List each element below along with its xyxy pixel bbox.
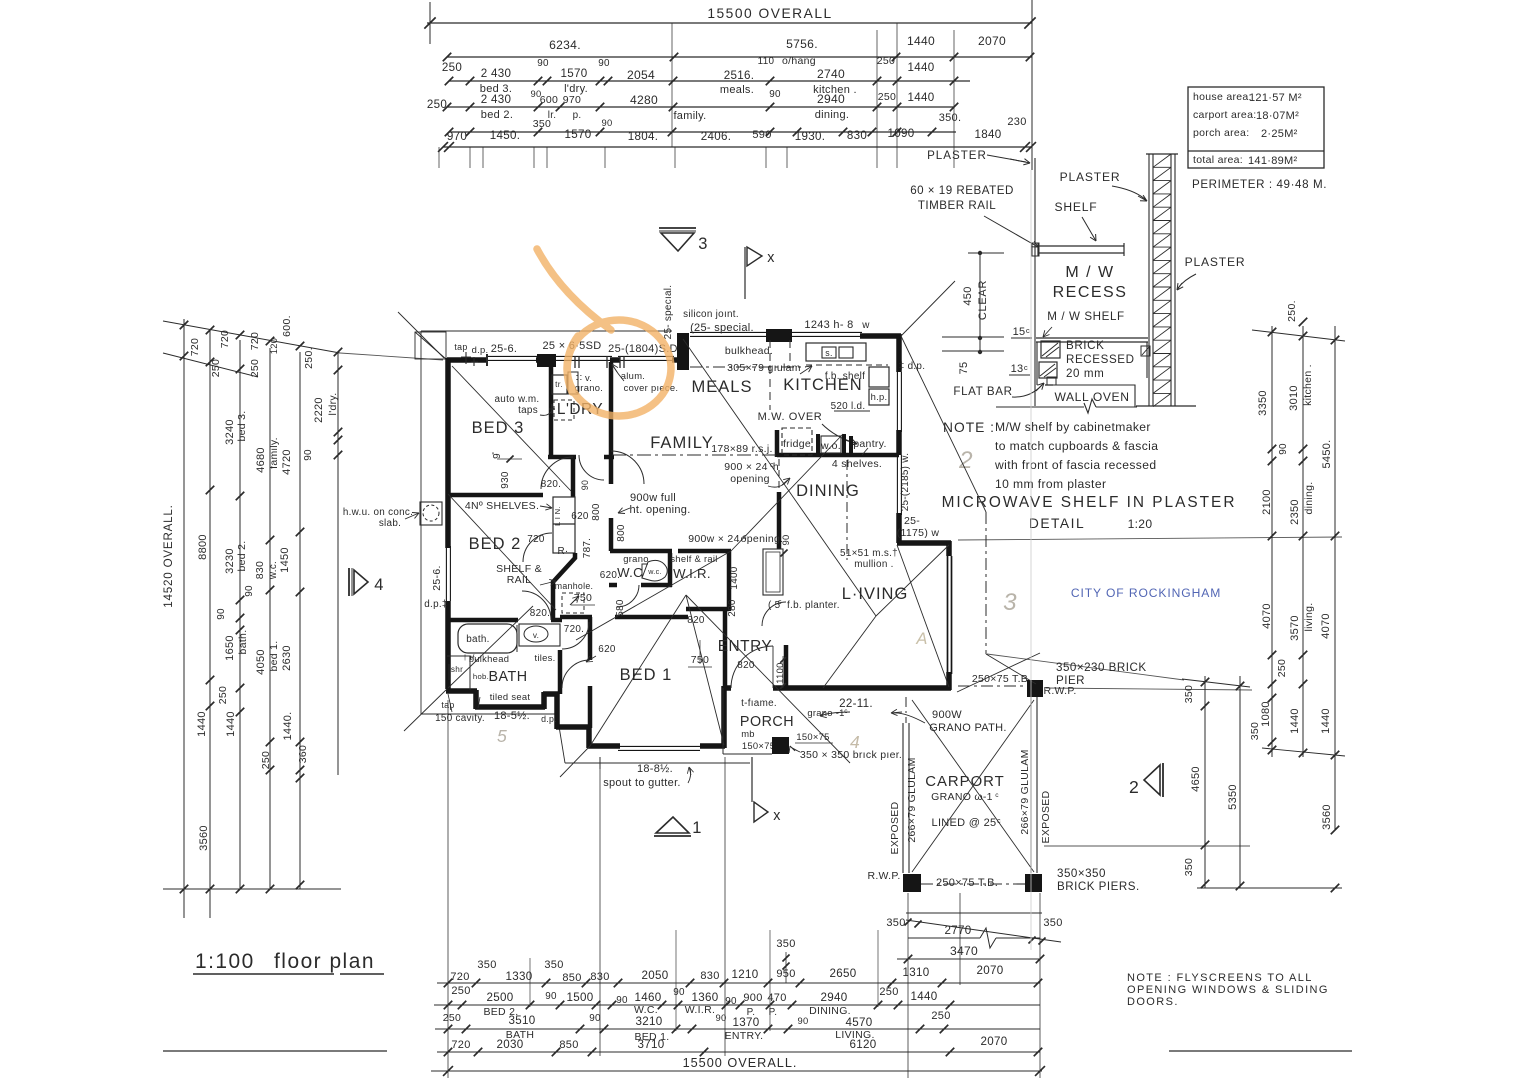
svg-text:pantry.: pantry. <box>853 438 886 450</box>
left chain verticals <box>209 330 211 889</box>
svg-text:bath.: bath. <box>237 630 249 655</box>
svg-text:2030: 2030 <box>497 1038 524 1051</box>
svg-text:NOTE : FLYSCREENS TO ALL: NOTE : FLYSCREENS TO ALL <box>1127 972 1313 984</box>
bottom row 1 line <box>437 982 1040 984</box>
vanity bed bath <box>519 624 560 646</box>
bottom row 4 line <box>437 1051 1040 1053</box>
section marker 2 (triangle left) <box>1144 765 1160 795</box>
svg-text:1440: 1440 <box>1320 708 1332 734</box>
svg-text:250: 250 <box>249 359 261 377</box>
manhole dashed box <box>562 593 584 613</box>
svg-text:f.b. planter.: f.b. planter. <box>787 600 840 611</box>
svg-text:350×230 BRICK: 350×230 BRICK <box>1056 661 1147 674</box>
svg-text:TIMBER RAIL: TIMBER RAIL <box>918 199 996 212</box>
svg-text:3240: 3240 <box>224 419 236 445</box>
roof line living corner to carport <box>957 653 1040 692</box>
svg-text:RECESS: RECESS <box>1053 284 1128 301</box>
svg-text:1450: 1450 <box>279 547 291 573</box>
svg-text:R.W.P.: R.W.P. <box>867 870 900 882</box>
svg-text:w.c.: w.c. <box>647 567 662 576</box>
dim row 2: 6234 / 5756 / 1440 / 2070 <box>447 56 1032 58</box>
north wall bed3 (with window 25-6) <box>447 357 487 363</box>
svg-text:3570: 3570 <box>1289 615 1301 641</box>
carport beam bottom dash-dot <box>921 883 1025 885</box>
svg-text:25-: 25- <box>904 515 920 527</box>
svg-text:MEALS: MEALS <box>692 378 753 396</box>
svg-text:620.: 620. <box>600 570 620 581</box>
svg-text:hob.: hob. <box>473 672 489 681</box>
dim 450 CLEAR / 75 <box>979 253 981 352</box>
svg-text:2 430: 2 430 <box>481 67 512 80</box>
svg-text:PLASTER: PLASTER <box>1185 255 1246 269</box>
svg-text:900w × 24: 900w × 24 <box>688 533 739 545</box>
svg-text:bed 3.: bed 3. <box>236 411 248 442</box>
svg-text:c: c <box>1024 363 1028 372</box>
svg-text:5: 5 <box>497 726 507 746</box>
bulkhead dash-dot line over meals <box>690 366 806 368</box>
svg-text:1450.: 1450. <box>490 129 521 142</box>
svg-text:3350: 3350 <box>1257 390 1269 416</box>
svg-text:h: h <box>773 461 779 473</box>
entry door stub <box>725 685 731 691</box>
svg-text:4680: 4680 <box>255 447 267 473</box>
flat bar bracket <box>1047 377 1056 385</box>
svg-text:250×75 T.B.: 250×75 T.B. <box>936 877 998 889</box>
svg-text:6120: 6120 <box>850 1038 877 1051</box>
svg-text:350: 350 <box>1043 917 1062 929</box>
svg-text:ht. opening.: ht. opening. <box>629 504 690 516</box>
svg-text:350: 350 <box>1183 685 1195 703</box>
svg-text:PLASTER: PLASTER <box>927 149 987 162</box>
svg-text:ENTRY.: ENTRY. <box>725 1030 764 1042</box>
svg-text:s.: s. <box>825 348 832 358</box>
svg-text:1370: 1370 <box>733 1016 760 1029</box>
svg-text:M/W shelf by cabinetmaker: M/W shelf by cabinetmaker <box>995 420 1151 434</box>
svg-text:v.: v. <box>533 631 539 640</box>
carport lower extension to right dims <box>1044 845 1250 847</box>
svg-text:c: c <box>997 816 1001 825</box>
svg-text:1460: 1460 <box>635 991 662 1004</box>
svg-text:l'dry.: l'dry. <box>327 393 339 416</box>
svg-text:266×79 GLULAM: 266×79 GLULAM <box>906 757 918 842</box>
svg-text:3230: 3230 <box>224 548 236 574</box>
svg-text:2100: 2100 <box>1261 489 1273 515</box>
svg-text:6234.: 6234. <box>549 38 581 52</box>
svg-text:18-8½.: 18-8½. <box>637 763 673 775</box>
svg-text:970: 970 <box>563 94 581 106</box>
kitchen tall cupboard + h.p. <box>869 367 889 387</box>
svg-text:1500: 1500 <box>567 991 594 1004</box>
svg-text:90: 90 <box>715 1012 726 1023</box>
svg-text:1360: 1360 <box>692 991 719 1004</box>
section marker x (bottom) <box>751 757 753 802</box>
kitchen nib <box>775 430 780 457</box>
north wall jamb block <box>766 329 792 342</box>
bottom row 3 line <box>435 1028 1040 1030</box>
right 250 ticks <box>1268 651 1276 659</box>
svg-text:porch area:: porch area: <box>1193 127 1249 139</box>
svg-text:bed 2.: bed 2. <box>481 109 513 121</box>
svg-text:305×79 gıulam: 305×79 gıulam <box>727 362 801 374</box>
svg-text:1330: 1330 <box>506 970 533 983</box>
svg-text:WALL OVEN: WALL OVEN <box>1054 390 1129 404</box>
svg-text:1440: 1440 <box>908 61 935 74</box>
jamb block bed3/ldry <box>537 354 556 367</box>
door stile marks on sliding doors <box>574 356 576 368</box>
section marker 3 (triangle down) <box>659 227 696 229</box>
right extension y=688 <box>987 654 1184 680</box>
carport bottom slab line <box>906 912 1042 914</box>
corner post meals <box>677 333 689 370</box>
svg-text:720: 720 <box>189 338 201 356</box>
svg-text:110: 110 <box>758 56 775 67</box>
svg-text:grano: grano <box>623 553 648 564</box>
section marker x (top) <box>744 247 746 299</box>
svg-text:350: 350 <box>477 959 496 971</box>
svg-text:‡ d.p.: ‡ d.p. <box>899 361 926 372</box>
svg-text:to match cupboards & fasci: to match cupboards & fascia <box>995 439 1158 453</box>
svg-text:470: 470 <box>767 992 786 1004</box>
svg-text:p.: p. <box>573 110 582 121</box>
svg-text:carport area:: carport area: <box>1193 109 1256 121</box>
svg-text:R·: R· <box>557 546 568 557</box>
right extension to plan y=538 <box>958 537 1342 540</box>
dining west dashed segment <box>778 459 780 492</box>
svg-text:1080: 1080 <box>1260 701 1272 727</box>
svg-text:13: 13 <box>1011 363 1024 375</box>
interior wall: family west lower stub <box>609 518 614 551</box>
north wall sliding door 25-(1804)SD <box>618 355 674 357</box>
west wall of porch / bed1 east wall <box>721 686 727 748</box>
svg-text:tiled seat: tiled seat <box>490 691 531 702</box>
north wall l'dry sliding door 25x6.5SD <box>556 355 612 357</box>
svg-text:4Nº SHELVES.: 4Nº SHELVES. <box>465 500 539 512</box>
south wall living <box>773 685 951 691</box>
laundry trough box <box>552 375 567 394</box>
interior wall: wc north <box>610 549 672 554</box>
svg-text:house area:: house area: <box>1193 91 1252 103</box>
interior wall: entry west <box>723 609 728 688</box>
carport diagonals <box>912 700 1034 872</box>
svg-text:14520 OVERALL.: 14520 OVERALL. <box>162 504 175 607</box>
svg-text:PERIMETER : 49·48 M.: PERIMETER : 49·48 M. <box>1192 178 1327 191</box>
interior wall: entry east <box>784 645 789 688</box>
svg-text:8800: 8800 <box>197 534 209 560</box>
svg-text:dining.: dining. <box>1303 481 1315 514</box>
svg-text:W.C: W.C <box>617 565 643 580</box>
pantry walls + label <box>849 436 853 457</box>
svg-text:2770: 2770 <box>945 924 972 937</box>
svg-text:tiles.: tiles. <box>534 652 555 663</box>
svg-text:2350: 2350 <box>1289 499 1301 525</box>
svg-text:360: 360 <box>297 745 309 763</box>
carport dash-dot boundary top <box>958 685 1028 687</box>
dim line under bed1 (gutter) <box>565 762 750 764</box>
svg-text:720: 720 <box>527 534 545 545</box>
svg-text:350.: 350. <box>939 112 962 124</box>
bulkhead dashes near meals/kitchen <box>769 340 771 410</box>
svg-text:2940: 2940 <box>817 92 845 106</box>
svg-text:590: 590 <box>752 129 771 141</box>
svg-text:250×75 T.B: 250×75 T.B <box>972 673 1028 685</box>
svg-text:2: 2 <box>1129 777 1139 797</box>
svg-text:1310: 1310 <box>903 966 930 979</box>
svg-text:d.p.: d.p. <box>541 714 557 724</box>
svg-text:FAMILY: FAMILY <box>650 434 713 452</box>
svg-text:121·57 M²: 121·57 M² <box>1249 92 1302 104</box>
dim line 15500 OVERALL (top) <box>427 22 1032 24</box>
svg-text:120: 120 <box>268 338 279 355</box>
svg-text:15500 OVERALL: 15500 OVERALL <box>707 6 832 21</box>
svg-text:720: 720 <box>451 1039 470 1051</box>
dim line 14520 OVERALL (left) <box>183 319 185 893</box>
svg-text:800: 800 <box>616 524 627 542</box>
section marker 4 (triangle right) <box>348 568 350 596</box>
svg-text:280: 280 <box>727 599 738 617</box>
shower corner <box>447 655 470 657</box>
svg-text:90: 90 <box>545 991 557 1002</box>
svg-text:4 shelves.: 4 shelves. <box>832 458 882 470</box>
svg-text:1440: 1440 <box>225 711 237 737</box>
svg-text:350 × 350 brıck pıer.: 350 × 350 brıck pıer. <box>800 749 902 761</box>
svg-text:1243 h- 8: 1243 h- 8 <box>804 319 853 331</box>
svg-text:x: x <box>773 808 780 824</box>
svg-text:3: 3 <box>1003 589 1017 616</box>
svg-text:2940: 2940 <box>821 991 848 1004</box>
roof hip diagonals <box>398 312 444 358</box>
svg-text:BED 1: BED 1 <box>620 666 673 684</box>
svg-text:600.: 600. <box>281 315 293 337</box>
shelf double line <box>1038 245 1124 247</box>
svg-text:4280: 4280 <box>630 93 658 107</box>
south wall bath with tiled seat bump <box>543 691 558 697</box>
svg-text:9̊: 9̊ <box>492 452 503 458</box>
interior wall: bed3 robe bottom <box>548 455 576 460</box>
dim row 4: 250/2430/600/970/4280/90/2940/250/1440 <box>447 106 954 108</box>
svg-text:90: 90 <box>769 89 781 100</box>
svg-text:141·89M²: 141·89M² <box>1248 155 1298 167</box>
svg-text:15: 15 <box>1013 326 1026 338</box>
svg-text:830: 830 <box>254 561 266 579</box>
svg-text:4650: 4650 <box>1190 766 1202 792</box>
svg-text:slab.: slab. <box>379 518 401 529</box>
washing machine dashed box <box>554 400 574 420</box>
svg-text:CARPORT: CARPORT <box>925 774 1005 790</box>
section marker 1 (triangle up) <box>656 817 689 833</box>
orange highlighter mark <box>537 249 671 416</box>
svg-text:350: 350 <box>1249 722 1261 740</box>
svg-text:450: 450 <box>962 286 974 305</box>
door arc living <box>762 602 786 626</box>
bottom left border line <box>163 1050 387 1052</box>
svg-text:c: c <box>844 708 848 715</box>
svg-text:2050: 2050 <box>642 969 669 982</box>
svg-text:2406.: 2406. <box>701 130 732 143</box>
bed1 west jog <box>586 726 592 748</box>
svg-text:250: 250 <box>210 359 222 377</box>
svg-text:90: 90 <box>797 1015 808 1026</box>
short extension stubs below top block <box>438 147 440 168</box>
svg-text:830: 830 <box>590 971 609 983</box>
area table box (top right) <box>1188 87 1324 168</box>
svg-text:18·07M²: 18·07M² <box>1256 110 1299 122</box>
door arc bed1 <box>562 660 590 688</box>
planter box <box>763 549 783 595</box>
w.o. box <box>816 434 820 457</box>
bed2 robe closet <box>553 497 575 553</box>
north wall kitchen window 1243 <box>792 331 862 333</box>
svg-text:c: c <box>995 792 999 799</box>
svg-text:900 × 24: 900 × 24 <box>724 461 768 473</box>
svg-text:x: x <box>767 250 774 266</box>
svg-text:90: 90 <box>616 995 628 1006</box>
door arc robe l'dry <box>579 455 604 480</box>
svg-text:4720: 4720 <box>281 449 293 475</box>
svg-text:BRICK PIERS.: BRICK PIERS. <box>1057 880 1140 893</box>
m/w shelf line <box>1036 337 1148 339</box>
east wall living window <box>946 541 952 556</box>
svg-text:tr.: tr. <box>555 380 563 389</box>
svg-text:25- specıal.: 25- specıal. <box>663 285 674 340</box>
fridge dashed box <box>782 428 812 455</box>
svg-text:90: 90 <box>537 58 549 69</box>
bottom overall line <box>431 1070 1042 1072</box>
svg-text:LINED @ 25: LINED @ 25 <box>932 817 997 829</box>
svg-text:family.: family. <box>268 437 280 469</box>
svg-text:250.: 250. <box>1286 300 1298 322</box>
right chain top ticks <box>1252 330 1345 341</box>
svg-text:3470: 3470 <box>950 944 978 958</box>
svg-text:2 430: 2 430 <box>481 93 512 106</box>
svg-text:1400: 1400 <box>729 566 740 589</box>
svg-text:2070: 2070 <box>981 1035 1008 1048</box>
svg-text:FLAT BAR: FLAT BAR <box>953 385 1012 398</box>
svg-text:1:20: 1:20 <box>1128 517 1153 531</box>
svg-text:75: 75 <box>958 362 970 375</box>
svg-text:1440: 1440 <box>911 990 938 1003</box>
recess left wall line <box>1034 158 1036 406</box>
svg-text:GRANO PATH.: GRANO PATH. <box>929 722 1006 734</box>
svg-text:grano -1: grano -1 <box>807 707 844 718</box>
svg-text:h.w.u. on conc.: h.w.u. on conc. <box>343 507 413 518</box>
interior wall: bed3/bed2 divider <box>450 493 543 498</box>
svg-text:250: 250 <box>877 55 895 67</box>
east wall dining window 25-(2185)w <box>896 455 898 515</box>
svg-text:18-5½.: 18-5½. <box>494 710 530 722</box>
svg-text:4070: 4070 <box>1261 603 1273 629</box>
svg-text:4070: 4070 <box>1320 613 1332 639</box>
svg-text:230: 230 <box>1007 116 1026 128</box>
south wall bed1 with window <box>700 743 725 749</box>
svg-text:250: 250 <box>217 686 229 704</box>
svg-text:90: 90 <box>589 1013 601 1024</box>
door arc bed2 robe <box>523 533 552 562</box>
hatch block right small <box>1141 346 1150 356</box>
svg-text:GRANO ω-1: GRANO ω-1 <box>931 791 993 803</box>
svg-text:720: 720 <box>249 332 261 350</box>
svg-text:1:100: 1:100 <box>195 950 255 973</box>
svg-text:shr: shr <box>451 665 463 674</box>
svg-text:h.p.: h.p. <box>871 391 888 402</box>
kitchen bench counter with sink <box>806 343 866 361</box>
porch pier <box>772 737 789 754</box>
svg-text:d.p.‡: d.p.‡ <box>424 599 447 610</box>
interior wall: wir east <box>727 551 732 611</box>
svg-text:5450.: 5450. <box>1321 439 1333 468</box>
svg-text:900W: 900W <box>932 709 962 721</box>
svg-text:opening: opening <box>730 473 769 485</box>
left fan ticks <box>180 321 188 329</box>
tap symbol <box>465 352 467 364</box>
svg-text:900w full: 900w full <box>630 492 676 504</box>
west wall (with window 25-6 at bed2) <box>445 601 451 689</box>
svg-text:720: 720 <box>219 330 231 348</box>
svg-text:PIER: PIER <box>1056 674 1085 687</box>
svg-text:kitchen .: kitchen . <box>1302 364 1314 406</box>
svg-text:family.: family. <box>673 110 706 122</box>
interior wall: l'dry west <box>549 366 554 455</box>
svg-text:1090: 1090 <box>888 127 915 140</box>
svg-text:850: 850 <box>559 1039 578 1051</box>
right 90 tick pair <box>1268 445 1276 453</box>
svg-text:750: 750 <box>574 592 592 604</box>
dimension block: right chains <box>1271 326 1273 757</box>
svg-text:total area:: total area: <box>1193 154 1243 166</box>
svg-text:M / W: M / W <box>1065 264 1114 281</box>
bottom right border line <box>1169 1050 1352 1052</box>
interior wall: wc/wir divider <box>668 553 673 587</box>
svg-text:90: 90 <box>244 585 255 597</box>
svg-text:w: w <box>861 320 870 331</box>
svg-text:250: 250 <box>442 61 462 74</box>
svg-text:fridge: fridge <box>783 438 811 450</box>
svg-text:720: 720 <box>450 971 469 983</box>
carport piers <box>1027 680 1043 697</box>
svg-text:250: 250 <box>1276 659 1288 677</box>
dim line bottom of top block <box>443 146 1032 148</box>
svg-text:266×79 GLULAM: 266×79 GLULAM <box>1019 749 1031 834</box>
svg-text:90: 90 <box>580 480 590 490</box>
svg-text:† tf.: † tf. <box>463 653 477 662</box>
east wall kitchen <box>896 334 902 372</box>
svg-text:spout to gutter.: spout to gutter. <box>603 777 681 789</box>
svg-text:(1175) w: (1175) w <box>897 527 940 539</box>
door arc bed2 entry <box>522 591 551 620</box>
svg-text:4: 4 <box>374 576 383 594</box>
svg-text:EXPOSED: EXPOSED <box>1040 790 1052 843</box>
svg-text:manhole.: manhole. <box>555 581 594 591</box>
svg-text:51×51 m.s.†: 51×51 m.s.† <box>840 548 898 559</box>
wall oven box <box>1053 385 1135 413</box>
extension line x=1032 (top right) <box>1031 0 1033 170</box>
svg-text:DOORS.: DOORS. <box>1127 996 1179 1008</box>
svg-text:3: 3 <box>698 235 707 253</box>
svg-text:830: 830 <box>847 129 867 142</box>
svg-text:90: 90 <box>1278 443 1289 455</box>
svg-text:250: 250 <box>443 1012 461 1024</box>
svg-text:930: 930 <box>500 471 511 489</box>
svg-text:150×75: 150×75 <box>796 731 829 742</box>
svg-text:1440.: 1440. <box>282 711 294 740</box>
door arc bath <box>562 622 589 649</box>
svg-text:787.: 787. <box>582 538 593 558</box>
recess side below shelf <box>1036 342 1038 385</box>
door arc family opening <box>611 451 644 484</box>
interior wall: wir north <box>678 549 731 554</box>
svg-text:350: 350 <box>544 959 563 971</box>
svg-text:1650: 1650 <box>224 635 236 661</box>
svg-text:350: 350 <box>886 917 905 929</box>
